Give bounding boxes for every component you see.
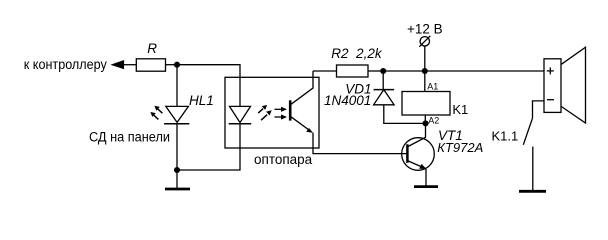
wire: speaker minus to contact K1.1 <box>533 101 545 118</box>
speaker plus terminal <box>547 70 554 72</box>
svg-text:КТ972А: КТ972А <box>437 140 483 155</box>
node A junction (R / HL1 / opto anode) <box>174 62 180 68</box>
opto LED <box>230 106 251 122</box>
wire: HL1 cathode down to node B <box>176 124 178 170</box>
resistor R2 <box>337 65 369 77</box>
svg-text:R: R <box>147 41 157 56</box>
svg-text:к контроллеру: к контроллеру <box>24 57 107 72</box>
transistor VT1 body <box>402 138 435 171</box>
wire: contact to ground <box>532 147 534 191</box>
svg-text:K1.1: K1.1 <box>492 129 519 144</box>
LED HL1 <box>166 106 189 122</box>
wire: к контроллеру lead <box>124 64 137 66</box>
opto received-light arrow 2 <box>275 116 283 118</box>
opto emission arrow 2 <box>261 115 267 121</box>
+12V terminal <box>420 37 429 46</box>
wire: +12V rail <box>383 70 544 72</box>
speaker minus terminal <box>547 99 554 101</box>
svg-text:K1: K1 <box>452 102 468 117</box>
wire: K1 pin A2 <box>424 115 426 123</box>
arrow to controller <box>112 61 124 69</box>
diode VD1 <box>374 89 395 91</box>
node B junction (HL1 cathode / opto cathode / ground) <box>174 167 180 173</box>
HL1 emission arrow 1 <box>158 109 163 114</box>
node C junction (R2 / VD1 / +12V rail) <box>380 68 386 74</box>
svg-text:+12 В: +12 В <box>407 22 443 37</box>
wire: R2 to node C <box>368 70 383 72</box>
node D junction (VD1 / A2 / VT1 collector) <box>422 120 428 126</box>
node E junction (+12V / rail / K1 A1) <box>422 68 428 74</box>
wire: K1 pin A1 <box>424 71 426 92</box>
speaker BA1 terminal box <box>544 59 561 113</box>
opto emission arrow 1 <box>258 109 263 114</box>
wire: node B to opto LED cathode <box>177 124 240 170</box>
wire: VT1 emitter to ground <box>425 169 427 186</box>
svg-text:СД на панели: СД на панели <box>89 129 170 144</box>
contact K1.1 blade <box>523 118 532 145</box>
HL1 emission arrow 2 <box>154 115 159 120</box>
VT1 emitter <box>408 161 424 168</box>
optocoupler U1 box <box>225 77 319 148</box>
relay K1 coil <box>402 92 450 116</box>
wire: VD1 anode to node D <box>384 105 426 124</box>
VT1 base bar <box>406 144 409 163</box>
VT1 collector <box>408 123 426 146</box>
resistor R <box>136 59 165 71</box>
speaker horn <box>562 47 586 123</box>
wire: HL1 anode <box>176 65 178 107</box>
wire: node B to ground <box>176 170 178 188</box>
wire: node A to opto LED anode <box>177 65 240 107</box>
opto phototransistor emitter <box>291 117 311 131</box>
wire: +12V terminal to rail <box>424 46 426 71</box>
svg-text:HL1: HL1 <box>189 93 214 108</box>
opto received-light arrow 1 <box>275 108 283 110</box>
ground (K1.1) <box>519 190 546 193</box>
wire: opto collector to R2 <box>313 70 337 72</box>
svg-text:1N4001: 1N4001 <box>324 93 371 108</box>
ground (left) <box>165 188 190 191</box>
ground (VT1) <box>414 185 438 188</box>
wire: R to node A <box>166 64 178 66</box>
opto phototransistor collector <box>291 71 313 104</box>
wire: opto emitter to VT1 base <box>313 133 407 154</box>
diode VD1 cathode lead <box>382 71 384 90</box>
svg-text:A2: A2 <box>428 115 439 125</box>
opto phototransistor base bar <box>289 100 292 120</box>
svg-text:R2 2,2k: R2 2,2k <box>331 46 383 61</box>
svg-text:A1: A1 <box>427 81 438 91</box>
svg-text:оптопара: оптопара <box>254 152 313 167</box>
